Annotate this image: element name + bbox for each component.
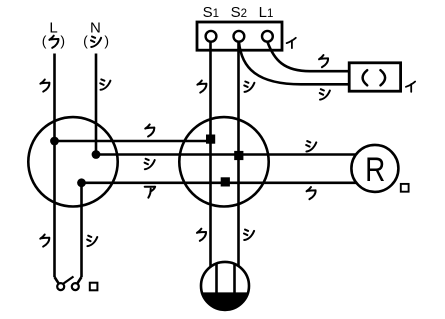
svg-text:(: ( bbox=[83, 33, 88, 49]
label shi below curve bbox=[320, 89, 330, 99]
rosette paren right bbox=[381, 70, 386, 85]
wire switch bend right bbox=[78, 277, 82, 283]
wire black to S1 (horizontal) bbox=[55, 140, 211, 143]
node B bbox=[92, 150, 101, 159]
wire L vertical bbox=[53, 54, 56, 278]
svg-text:L: L bbox=[49, 20, 57, 37]
lamp receptacle circle bbox=[201, 262, 249, 310]
wire switch return to R (horizontal) bbox=[82, 182, 357, 185]
wire switch return vertical bbox=[80, 183, 83, 277]
wire curve S2 to rosette (white) bbox=[239, 42, 350, 85]
switch contact left bbox=[57, 283, 64, 290]
label shi top-left bbox=[100, 79, 110, 89]
junction square S1/black bbox=[206, 135, 215, 144]
wire N vertical bbox=[95, 54, 98, 155]
label shi beside S2 wire bbox=[244, 82, 254, 92]
junction square S2/white bbox=[234, 151, 243, 160]
svg-text:N: N bbox=[90, 20, 101, 37]
terminal S1 circle bbox=[206, 31, 217, 42]
receptacle R circle bbox=[351, 145, 398, 192]
junction box left bbox=[28, 117, 117, 206]
rosette paren left bbox=[363, 70, 368, 85]
label ku bottom-left bbox=[40, 235, 49, 247]
svg-text:R: R bbox=[365, 150, 385, 188]
label shi below middle box (to lamp) bbox=[244, 230, 254, 240]
label shi mid-left bbox=[145, 159, 155, 169]
svg-text:(: ( bbox=[42, 33, 47, 49]
label a mid-left bbox=[145, 187, 155, 198]
switch contact right bbox=[72, 283, 79, 290]
label ku beside S1 wire bbox=[197, 81, 206, 93]
label ku mid-left bbox=[145, 124, 154, 136]
svg-text:): ) bbox=[104, 33, 109, 49]
label ku below middle box (to lamp) bbox=[197, 229, 206, 241]
label ro square beside R bbox=[401, 184, 409, 192]
wire L bend to switch bbox=[55, 277, 59, 283]
label ku top-left bbox=[40, 80, 49, 92]
junction square return bbox=[221, 177, 230, 186]
label ro square beside switch bbox=[90, 283, 98, 291]
wire white to R (horizontal) bbox=[96, 153, 356, 156]
label shi bottom-left bbox=[87, 236, 97, 246]
svg-text:): ) bbox=[60, 33, 65, 49]
terminal block rectangle bbox=[197, 22, 282, 50]
node C bbox=[77, 178, 86, 187]
wire S1 vertical bbox=[209, 42, 212, 267]
lamp inner contact left bbox=[215, 264, 218, 294]
switch lever bbox=[64, 277, 74, 284]
wire curve L1 to rosette (black) bbox=[267, 42, 350, 71]
wire S2 vertical bbox=[237, 42, 240, 266]
label i beside terminal block bbox=[287, 38, 296, 48]
junction box middle bbox=[179, 117, 268, 206]
lamp filled base segment bbox=[202, 292, 248, 309]
node A bbox=[50, 137, 59, 146]
label ku below wire to R bbox=[307, 187, 316, 199]
terminal L1 circle bbox=[262, 31, 273, 42]
lamp inner contact right bbox=[233, 264, 236, 293]
terminal S2 circle bbox=[234, 31, 245, 42]
label ku above curve bbox=[319, 55, 328, 67]
ceiling rosette box bbox=[349, 63, 400, 91]
label shi above wire to R bbox=[306, 141, 316, 151]
label i beside rosette bbox=[406, 82, 415, 92]
